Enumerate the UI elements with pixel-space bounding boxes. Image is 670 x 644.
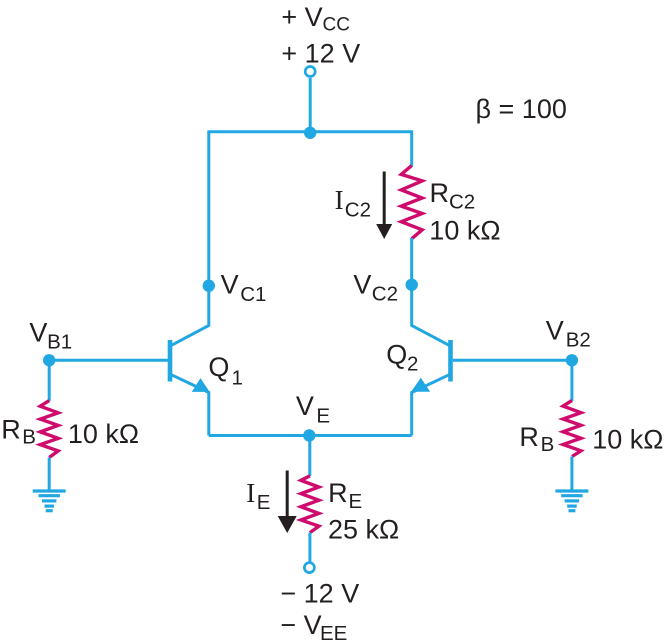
Q1 emitter arrowhead — [192, 378, 210, 392]
wire right collector lower — [412, 238, 450, 346]
svg-text:10 kΩ: 10 kΩ — [68, 419, 139, 449]
node VC1 — [203, 280, 215, 292]
resistor RE — [301, 476, 319, 533]
ground left — [33, 491, 66, 511]
svg-text:VE: VE — [296, 391, 330, 428]
resistor RC2 — [401, 166, 422, 239]
terminal VEE — [304, 563, 314, 573]
node VC2 — [406, 279, 418, 291]
svg-text:RB: RB — [1, 414, 36, 448]
svg-text:25 kΩ: 25 kΩ — [328, 515, 399, 545]
svg-text:VB2: VB2 — [546, 316, 591, 352]
svg-text:10 kΩ: 10 kΩ — [429, 216, 500, 246]
wire Q2 emitter — [412, 374, 450, 435]
svg-text:VC2: VC2 — [353, 270, 398, 306]
wire VCC stem — [309, 78, 312, 132]
node VE — [303, 429, 315, 441]
wire RE bottom — [308, 533, 311, 562]
terminal VCC — [305, 67, 315, 77]
svg-text:Q1: Q1 — [208, 352, 243, 390]
wire RB right bottom — [570, 457, 573, 490]
current arrow IC2 — [383, 172, 386, 226]
svg-text:RB: RB — [519, 422, 554, 456]
svg-text:− 12 V: − 12 V — [280, 579, 359, 609]
svg-text:− VEE: − VEE — [280, 610, 347, 644]
node VB1 — [43, 354, 55, 366]
svg-text:VB1: VB1 — [29, 317, 72, 353]
wire bottom rail — [209, 434, 412, 437]
ground right — [555, 491, 588, 511]
svg-text:10 kΩ: 10 kΩ — [592, 425, 663, 455]
Q2 emitter arrowhead — [411, 378, 430, 392]
wire left collector branch — [171, 130, 209, 345]
resistor RB left — [40, 401, 58, 458]
wire RE stem — [308, 436, 311, 477]
wire base left — [49, 359, 168, 362]
svg-text:IC2: IC2 — [335, 185, 371, 222]
svg-text:+ 12 V: + 12 V — [281, 38, 360, 68]
svg-text:RC2: RC2 — [430, 178, 476, 214]
resistor RB right — [563, 401, 581, 457]
current arrow IE — [286, 471, 289, 518]
wire top rail — [209, 130, 412, 133]
transistor Q1 base bar — [168, 340, 173, 382]
node VB2 — [566, 354, 578, 366]
wire Q1 emitter — [171, 374, 209, 435]
wire right collector upper — [410, 130, 413, 166]
svg-text:RE: RE — [328, 478, 362, 513]
node VCC junction — [304, 127, 316, 139]
transistor Q2 base bar — [448, 340, 453, 382]
wire RB left stem — [48, 360, 51, 401]
svg-text:Q2: Q2 — [386, 340, 418, 376]
svg-text:β = 100: β = 100 — [476, 94, 567, 124]
svg-text:VC1: VC1 — [221, 270, 267, 306]
svg-text:+ VCC: + VCC — [281, 2, 350, 35]
wire RB right stem — [570, 360, 573, 401]
svg-text:IE: IE — [246, 478, 270, 514]
wire RB left bottom — [48, 458, 51, 490]
wire base right — [453, 359, 572, 362]
